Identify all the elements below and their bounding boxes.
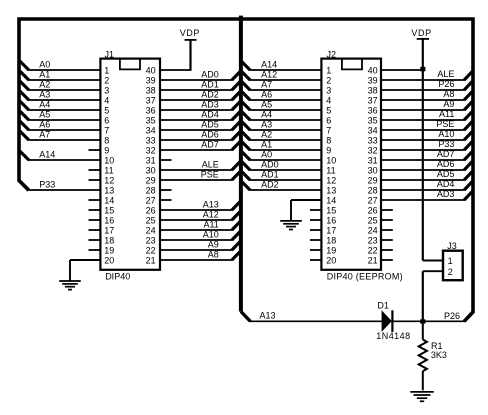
- svg-text:1: 1: [448, 256, 453, 266]
- svg-text:P33: P33: [39, 179, 55, 189]
- svg-text:A11: A11: [439, 109, 454, 119]
- svg-text:J2: J2: [327, 49, 337, 59]
- svg-text:39: 39: [146, 76, 156, 86]
- svg-text:6: 6: [326, 116, 331, 126]
- svg-text:2: 2: [448, 267, 453, 277]
- svg-text:P33: P33: [438, 139, 454, 149]
- svg-text:28: 28: [146, 186, 156, 196]
- svg-text:9: 9: [326, 146, 331, 156]
- svg-text:5: 5: [326, 106, 331, 116]
- svg-text:A0: A0: [261, 149, 272, 159]
- svg-text:A12: A12: [261, 69, 277, 79]
- svg-text:DIP40: DIP40: [105, 271, 130, 281]
- svg-text:7: 7: [326, 126, 331, 136]
- svg-text:25: 25: [146, 216, 156, 226]
- svg-text:VDP: VDP: [180, 28, 200, 38]
- svg-text:19: 19: [326, 246, 336, 256]
- svg-text:39: 39: [368, 76, 378, 86]
- svg-text:2: 2: [104, 76, 109, 86]
- svg-text:23: 23: [146, 236, 156, 246]
- svg-text:14: 14: [326, 196, 336, 206]
- svg-text:AD6: AD6: [437, 159, 455, 169]
- svg-text:A14: A14: [39, 149, 55, 159]
- svg-text:37: 37: [368, 96, 378, 106]
- svg-text:40: 40: [368, 66, 378, 76]
- svg-text:A10: A10: [438, 129, 454, 139]
- svg-text:19: 19: [104, 246, 114, 256]
- svg-text:34: 34: [368, 126, 378, 136]
- svg-text:26: 26: [368, 206, 378, 216]
- svg-text:18: 18: [104, 236, 114, 246]
- svg-text:3K3: 3K3: [431, 350, 447, 360]
- svg-text:12: 12: [104, 176, 114, 186]
- svg-text:A1: A1: [261, 139, 272, 149]
- svg-text:25: 25: [368, 216, 378, 226]
- svg-text:AD5: AD5: [201, 119, 219, 129]
- svg-text:13: 13: [104, 186, 114, 196]
- svg-text:10: 10: [104, 156, 114, 166]
- svg-text:33: 33: [368, 136, 378, 146]
- svg-text:11: 11: [326, 166, 335, 176]
- svg-text:A8: A8: [443, 89, 454, 99]
- svg-text:PSE: PSE: [201, 169, 219, 179]
- svg-text:21: 21: [368, 256, 378, 266]
- svg-text:12: 12: [326, 176, 336, 186]
- svg-text:A2: A2: [39, 79, 50, 89]
- svg-text:A7: A7: [39, 129, 50, 139]
- svg-text:PSE: PSE: [436, 119, 454, 129]
- svg-text:4: 4: [104, 96, 109, 106]
- svg-text:36: 36: [146, 106, 156, 116]
- svg-text:AD0: AD0: [261, 159, 279, 169]
- svg-text:7: 7: [104, 126, 109, 136]
- svg-text:AD3: AD3: [201, 99, 219, 109]
- svg-text:29: 29: [146, 176, 156, 186]
- svg-text:ALE: ALE: [202, 159, 219, 169]
- svg-text:8: 8: [326, 136, 331, 146]
- svg-text:23: 23: [368, 236, 378, 246]
- svg-text:AD4: AD4: [201, 109, 219, 119]
- svg-text:2: 2: [326, 76, 331, 86]
- svg-text:A11: A11: [203, 219, 218, 229]
- svg-text:AD7: AD7: [437, 149, 455, 159]
- svg-text:AD1: AD1: [261, 169, 279, 179]
- svg-text:A7: A7: [261, 79, 272, 89]
- svg-text:AD7: AD7: [201, 139, 219, 149]
- svg-text:16: 16: [104, 216, 114, 226]
- svg-text:P26: P26: [438, 79, 454, 89]
- svg-text:14: 14: [104, 196, 114, 206]
- svg-text:AD3: AD3: [437, 189, 455, 199]
- svg-text:21: 21: [146, 256, 156, 266]
- svg-text:28: 28: [368, 186, 378, 196]
- svg-text:A14: A14: [261, 59, 277, 69]
- svg-text:A3: A3: [261, 119, 272, 129]
- svg-text:35: 35: [146, 116, 156, 126]
- svg-text:31: 31: [146, 156, 156, 166]
- svg-text:11: 11: [104, 166, 113, 176]
- svg-text:A4: A4: [39, 99, 50, 109]
- svg-text:D1: D1: [377, 301, 389, 311]
- svg-text:27: 27: [146, 196, 156, 206]
- svg-text:4: 4: [326, 96, 331, 106]
- svg-text:10: 10: [326, 156, 336, 166]
- svg-text:AD0: AD0: [201, 69, 219, 79]
- svg-text:A2: A2: [261, 129, 272, 139]
- svg-text:AD4: AD4: [437, 179, 455, 189]
- svg-text:J1: J1: [105, 49, 115, 59]
- svg-text:A13: A13: [260, 311, 276, 321]
- svg-text:A9: A9: [443, 99, 454, 109]
- svg-text:15: 15: [104, 206, 114, 216]
- svg-text:29: 29: [368, 176, 378, 186]
- svg-text:A0: A0: [39, 59, 50, 69]
- svg-text:22: 22: [368, 246, 378, 256]
- svg-text:13: 13: [326, 186, 336, 196]
- svg-text:P26: P26: [444, 311, 460, 321]
- svg-text:6: 6: [104, 116, 109, 126]
- svg-text:24: 24: [146, 226, 156, 236]
- svg-text:A5: A5: [39, 109, 50, 119]
- svg-text:18: 18: [326, 236, 336, 246]
- svg-text:33: 33: [146, 136, 156, 146]
- svg-text:A1: A1: [39, 69, 50, 79]
- svg-text:5: 5: [104, 106, 109, 116]
- svg-text:32: 32: [146, 146, 156, 156]
- svg-text:20: 20: [326, 256, 336, 266]
- svg-text:VDP: VDP: [411, 28, 431, 38]
- svg-text:A9: A9: [208, 239, 219, 249]
- svg-text:30: 30: [368, 166, 378, 176]
- svg-text:3: 3: [104, 86, 109, 96]
- svg-text:31: 31: [368, 156, 378, 166]
- svg-text:24: 24: [368, 226, 378, 236]
- svg-text:J3: J3: [447, 241, 457, 251]
- svg-text:1N4148: 1N4148: [376, 331, 410, 341]
- svg-text:15: 15: [326, 206, 336, 216]
- svg-text:1: 1: [104, 66, 109, 76]
- svg-text:30: 30: [146, 166, 156, 176]
- svg-text:AD6: AD6: [201, 129, 219, 139]
- svg-text:37: 37: [146, 96, 156, 106]
- svg-text:17: 17: [326, 226, 336, 236]
- svg-text:22: 22: [146, 246, 156, 256]
- svg-text:3: 3: [326, 86, 331, 96]
- svg-text:17: 17: [104, 226, 114, 236]
- svg-text:20: 20: [104, 256, 114, 266]
- svg-text:A4: A4: [261, 109, 272, 119]
- svg-text:A5: A5: [261, 99, 272, 109]
- svg-text:38: 38: [368, 86, 378, 96]
- svg-text:A6: A6: [261, 89, 272, 99]
- svg-text:A3: A3: [39, 89, 50, 99]
- svg-text:36: 36: [368, 106, 378, 116]
- svg-text:AD5: AD5: [437, 169, 455, 179]
- svg-text:9: 9: [104, 146, 109, 156]
- svg-text:1: 1: [326, 66, 331, 76]
- svg-text:DIP40 (EEPROM): DIP40 (EEPROM): [327, 272, 403, 282]
- svg-text:38: 38: [146, 86, 156, 96]
- svg-text:A8: A8: [208, 249, 219, 259]
- svg-text:AD2: AD2: [201, 89, 219, 99]
- svg-text:26: 26: [146, 206, 156, 216]
- svg-text:34: 34: [146, 126, 156, 136]
- svg-text:ALE: ALE: [437, 69, 454, 79]
- svg-text:A10: A10: [203, 229, 219, 239]
- svg-text:A6: A6: [39, 119, 50, 129]
- svg-text:8: 8: [104, 136, 109, 146]
- svg-text:AD1: AD1: [201, 79, 219, 89]
- svg-text:35: 35: [368, 116, 378, 126]
- svg-text:A12: A12: [203, 209, 219, 219]
- svg-text:16: 16: [326, 216, 336, 226]
- svg-text:A13: A13: [203, 199, 219, 209]
- svg-text:AD2: AD2: [261, 179, 279, 189]
- svg-text:40: 40: [146, 66, 156, 76]
- svg-text:27: 27: [368, 196, 378, 206]
- svg-text:32: 32: [368, 146, 378, 156]
